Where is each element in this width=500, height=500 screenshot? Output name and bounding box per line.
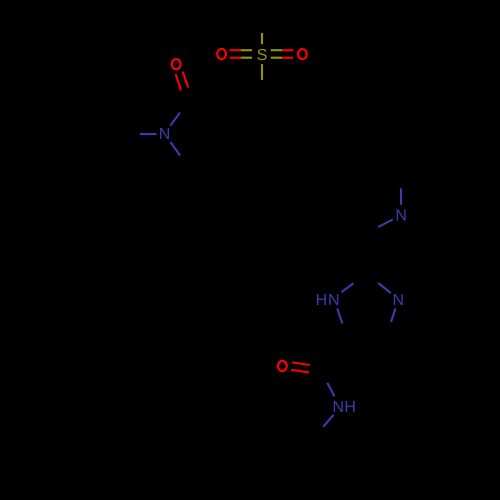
bond imidazole N1(H)-C5, N half: [337, 308, 342, 323]
bond imidazole N1(H)-C2, N half: [341, 283, 353, 292]
atom O right of sulfonyl: [298, 49, 307, 59]
bond S=O right, upper line, O half: [282, 49, 293, 51]
bond S=O left, lower line, S half: [241, 57, 252, 59]
bond S=O right, lower line, S half: [271, 57, 283, 59]
bond N2-C down-left, N half: [378, 220, 393, 228]
bond imidazole N3-C2, N half: [378, 283, 391, 293]
atom O amide: [278, 361, 287, 371]
bond amide C=O, lower line, O half: [291, 370, 309, 373]
bond amide C=O, upper line, O half: [292, 362, 310, 365]
svg-text:H: H: [316, 292, 328, 309]
bond S-aryl, S half: [261, 64, 263, 80]
svg-text:N: N: [159, 126, 171, 143]
bond N1-CH2, N half: [170, 142, 180, 155]
bond S=O left, lower line, O half: [230, 57, 241, 59]
atom O left of sulfonyl: [217, 49, 226, 59]
bond imidazole N3-C4, N half: [391, 309, 396, 323]
svg-text:S: S: [257, 47, 268, 64]
bond S=O right, lower line, O half: [282, 57, 293, 59]
bond S-CH3, S half: [261, 33, 263, 44]
svg-text:N: N: [333, 399, 345, 416]
bond C=O carbonyl isoindolinone, left line, O half: [176, 74, 181, 90]
svg-text:N: N: [395, 208, 407, 225]
bond N(H)-CH isopropyl, N half: [323, 415, 333, 427]
svg-text:N: N: [393, 292, 405, 309]
bond N1-C(=O), N half: [170, 113, 180, 126]
svg-text:N: N: [328, 292, 340, 309]
bond C=O carbonyl isoindolinone, right line, O half: [183, 72, 189, 88]
bond S=O left, upper line, S half: [241, 49, 252, 51]
atom O carbonyl isoindolinone: [172, 59, 181, 69]
bond N2-C up, N half: [400, 188, 402, 204]
svg-text:H: H: [344, 399, 356, 416]
bond amide C-N(H), N half: [327, 383, 334, 397]
bond S=O left, upper line, O half: [230, 49, 241, 51]
bond N1-CH3, N half: [140, 133, 157, 135]
bond S=O right, upper line, S half: [271, 49, 283, 51]
